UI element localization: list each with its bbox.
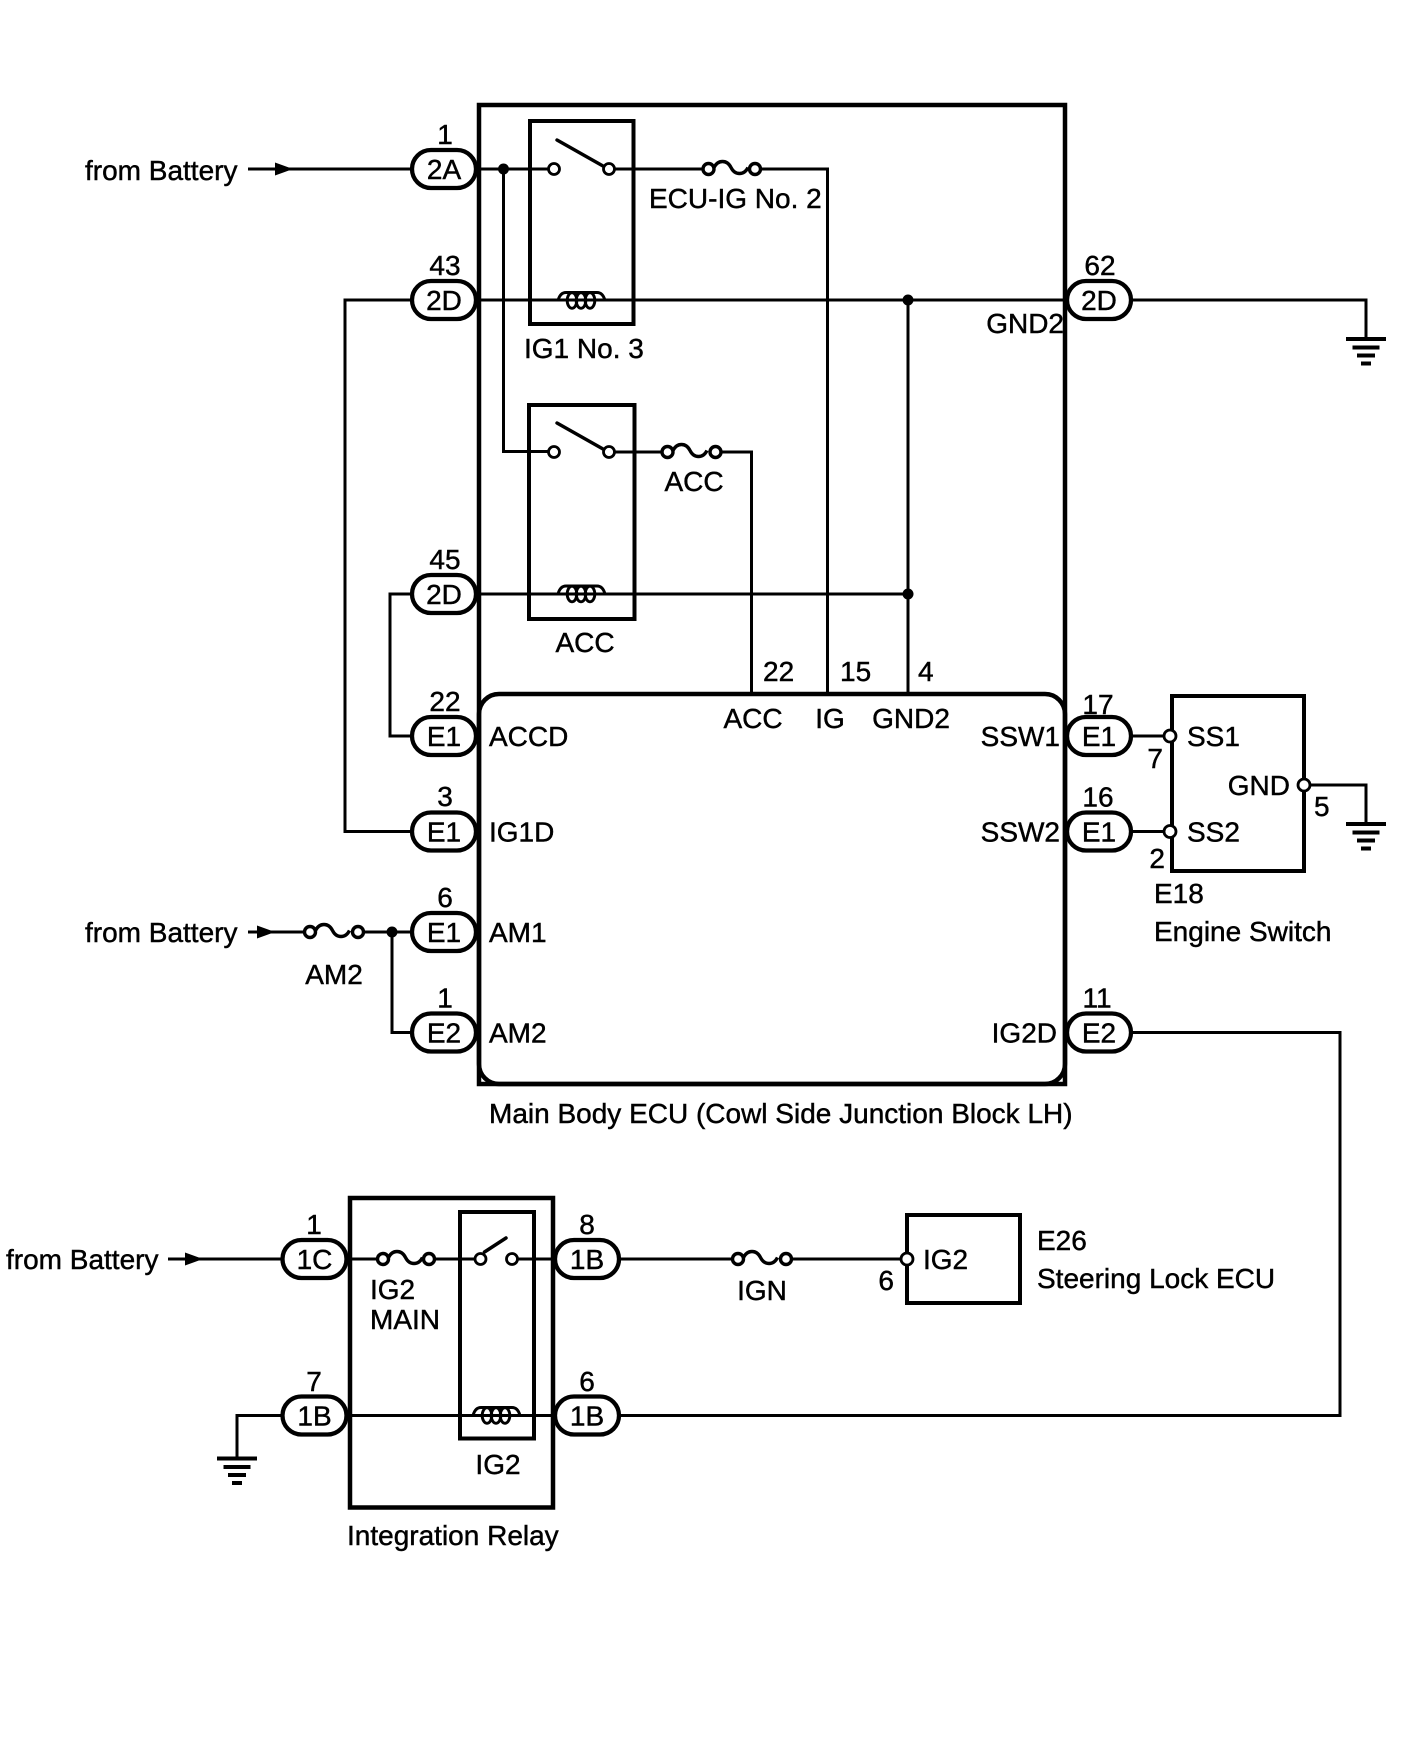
connector E1 pin 16 bbox=[1067, 813, 1131, 851]
junction dot GND2 wire top bbox=[903, 295, 914, 306]
connector E1 pin 3 bbox=[412, 813, 476, 851]
svg-text:from Battery: from Battery bbox=[6, 1244, 158, 1275]
svg-text:22: 22 bbox=[763, 656, 794, 687]
svg-text:15: 15 bbox=[840, 656, 871, 687]
wire 2D45 left down to ACCD bbox=[390, 594, 412, 736]
svg-text:IG1D: IG1D bbox=[489, 817, 554, 848]
svg-text:IG2D: IG2D bbox=[992, 1018, 1057, 1049]
wire GND to ground bbox=[1310, 785, 1366, 822]
svg-text:Integration Relay: Integration Relay bbox=[347, 1520, 559, 1551]
pin GND circle bbox=[1298, 779, 1310, 791]
arrowhead from Battery (bottom) bbox=[185, 1253, 203, 1266]
connector 1C pin 1 bbox=[283, 1240, 347, 1278]
pin IG2 circle (E26) bbox=[901, 1253, 913, 1265]
connector E1 pin 6 bbox=[412, 913, 476, 951]
arrowhead from Battery (AM2) bbox=[257, 926, 275, 939]
connector 1B pin 6 bbox=[555, 1397, 619, 1435]
svg-text:GND2: GND2 bbox=[986, 308, 1064, 339]
wire ACC switch to fuse ACC bbox=[615, 451, 663, 454]
svg-text:E1: E1 bbox=[427, 721, 461, 752]
wire SSW2 to SS2 bbox=[1131, 830, 1164, 833]
svg-text:1B: 1B bbox=[570, 1401, 604, 1432]
connector 2A bbox=[412, 150, 476, 188]
wire 2D43 through IG1 coil to GND2 node bbox=[476, 299, 1068, 302]
svg-text:2D: 2D bbox=[1081, 285, 1117, 316]
svg-text:1C: 1C bbox=[297, 1244, 333, 1275]
connector 1B pin 8 bbox=[555, 1240, 619, 1278]
svg-text:ACCD: ACCD bbox=[489, 721, 568, 752]
wire 2A to IG1 relay switch bbox=[476, 168, 548, 171]
svg-text:AM2: AM2 bbox=[489, 1018, 547, 1049]
svg-text:ACC: ACC bbox=[723, 703, 782, 734]
wire fuse ACC to pin 22 bbox=[721, 452, 752, 694]
Main Body ECU outer box bbox=[479, 105, 1065, 1084]
svg-text:E26: E26 bbox=[1037, 1225, 1087, 1256]
svg-text:E1: E1 bbox=[427, 917, 461, 948]
connector E2 pin 1 bbox=[412, 1014, 476, 1052]
svg-text:11: 11 bbox=[1082, 983, 1111, 1014]
svg-text:2D: 2D bbox=[426, 579, 462, 610]
svg-text:SSW1: SSW1 bbox=[981, 721, 1060, 752]
svg-text:ECU-IG No. 2: ECU-IG No. 2 bbox=[649, 183, 822, 214]
wire SSW1 to SS1 bbox=[1131, 735, 1164, 738]
wire from Battery to 1C bbox=[168, 1258, 282, 1261]
svg-text:E2: E2 bbox=[427, 1018, 461, 1049]
steering lock ECU E26 box bbox=[907, 1215, 1020, 1303]
junction dot on 2A feed bbox=[498, 164, 509, 175]
connector E2 pin 11 bbox=[1067, 1014, 1131, 1052]
relay IG2 coil bbox=[473, 1408, 520, 1424]
connector 2D pin 45 bbox=[412, 575, 476, 613]
relay IG1 No. 3 box bbox=[530, 121, 634, 324]
svg-text:Engine Switch: Engine Switch bbox=[1154, 916, 1331, 947]
relay IG1 No. 3 switch blade bbox=[557, 140, 603, 166]
relay IG1 No. 3 switch contact right bbox=[604, 164, 615, 175]
svg-text:8: 8 bbox=[579, 1209, 595, 1240]
ground symbol (engine switch) bbox=[1346, 824, 1386, 849]
svg-text:2: 2 bbox=[1149, 843, 1165, 874]
wire IG2 switch to 1B pin 8 bbox=[518, 1258, 556, 1261]
svg-text:Main Body ECU (Cowl Side Junct: Main Body ECU (Cowl Side Junction Block … bbox=[489, 1098, 1073, 1129]
wire IG1 switch to fuse ECU-IG No. 2 bbox=[615, 168, 704, 171]
svg-text:ACC: ACC bbox=[555, 627, 614, 658]
svg-text:1B: 1B bbox=[570, 1244, 604, 1275]
connector 2D pin 62 bbox=[1067, 281, 1131, 319]
wire fuse ECU-IG to IG pin 15 bbox=[761, 169, 828, 694]
fuse ACC bbox=[662, 445, 721, 458]
fuse ECU-IG No. 2 bbox=[703, 162, 761, 175]
ground symbol (GND2 top right) bbox=[1346, 339, 1386, 364]
fuse IGN bbox=[733, 1252, 792, 1265]
wire 1B pin 7 to IG2 coil bbox=[347, 1414, 556, 1417]
svg-text:IG1 No. 3: IG1 No. 3 bbox=[524, 333, 644, 364]
svg-text:E18: E18 bbox=[1154, 878, 1204, 909]
wire 1B pin 8 to fuse IGN bbox=[619, 1258, 733, 1261]
svg-text:GND2: GND2 bbox=[872, 703, 950, 734]
svg-text:IG: IG bbox=[815, 703, 845, 734]
relay ACC box bbox=[529, 405, 635, 619]
svg-text:4: 4 bbox=[918, 656, 934, 687]
fuse AM2 bbox=[305, 925, 364, 938]
svg-text:5: 5 bbox=[1314, 791, 1330, 822]
relay IG1 No. 3 switch contact left bbox=[549, 164, 560, 175]
wire 1C to fuse IG2 MAIN bbox=[347, 1258, 379, 1261]
wire fuse IG2 MAIN to IG2 relay switch bbox=[435, 1258, 476, 1261]
wire 2D43 left down to IG1D bbox=[345, 300, 412, 832]
svg-text:E1: E1 bbox=[1082, 721, 1116, 752]
svg-text:IG2: IG2 bbox=[923, 1244, 968, 1275]
svg-text:1: 1 bbox=[437, 983, 453, 1014]
svg-text:MAIN: MAIN bbox=[370, 1304, 440, 1335]
wire 1B pin 7 to ground bbox=[237, 1416, 283, 1458]
wire junction down to AM2 pin bbox=[392, 932, 412, 1033]
svg-text:3: 3 bbox=[437, 781, 453, 812]
svg-text:7: 7 bbox=[306, 1366, 322, 1397]
svg-text:IG2: IG2 bbox=[475, 1449, 520, 1480]
wire GND2 vertical to pin 4 bbox=[907, 300, 910, 694]
svg-text:from Battery: from Battery bbox=[85, 917, 237, 948]
svg-text:16: 16 bbox=[1082, 782, 1113, 813]
wire 2D45 through ACC coil to GND2 wire bbox=[476, 593, 908, 596]
relay IG1 No. 3 coil bbox=[558, 293, 605, 309]
svg-text:ACC: ACC bbox=[664, 466, 723, 497]
wire 2D62 to ground bbox=[1131, 300, 1366, 338]
svg-text:IGN: IGN bbox=[737, 1275, 787, 1306]
pin SS2 circle bbox=[1164, 826, 1176, 838]
relay IG2 switch contact left bbox=[475, 1254, 486, 1265]
wire IG2D to 1B pin 6 bbox=[620, 1033, 1340, 1416]
svg-text:6: 6 bbox=[437, 882, 453, 913]
connector 1B pin 7 bbox=[283, 1397, 347, 1435]
svg-text:1: 1 bbox=[306, 1209, 322, 1240]
svg-text:E1: E1 bbox=[427, 817, 461, 848]
relay IG2 switch blade bbox=[485, 1238, 507, 1252]
svg-text:SS2: SS2 bbox=[1187, 817, 1240, 848]
svg-text:1: 1 bbox=[437, 119, 453, 150]
relay ACC coil bbox=[558, 586, 605, 602]
connector 2D pin 43 bbox=[412, 281, 476, 319]
wire from Battery to fuse AM2 bbox=[248, 931, 304, 934]
svg-text:Steering Lock ECU: Steering Lock ECU bbox=[1037, 1263, 1275, 1294]
svg-text:2A: 2A bbox=[427, 154, 462, 185]
svg-text:E2: E2 bbox=[1082, 1018, 1116, 1049]
svg-text:6: 6 bbox=[579, 1366, 595, 1397]
integration relay outer box bbox=[350, 1198, 553, 1508]
svg-text:6: 6 bbox=[878, 1265, 894, 1296]
svg-text:1B: 1B bbox=[297, 1401, 331, 1432]
svg-text:SS1: SS1 bbox=[1187, 721, 1240, 752]
svg-text:GND: GND bbox=[1228, 770, 1290, 801]
svg-text:from Battery: from Battery bbox=[85, 155, 237, 186]
svg-text:2D: 2D bbox=[426, 285, 462, 316]
svg-text:45: 45 bbox=[429, 544, 460, 575]
pin SS1 circle bbox=[1164, 730, 1176, 742]
svg-text:AM1: AM1 bbox=[489, 917, 547, 948]
svg-text:7: 7 bbox=[1147, 743, 1163, 774]
svg-text:AM2: AM2 bbox=[305, 959, 363, 990]
relay ACC switch contact right bbox=[604, 447, 615, 458]
svg-text:22: 22 bbox=[429, 686, 460, 717]
wire fuse IGN to steering lock ECU bbox=[792, 1258, 902, 1261]
fuse IG2 MAIN bbox=[378, 1252, 435, 1265]
wire from Battery to connector 2A bbox=[248, 168, 412, 171]
engine switch E18 box bbox=[1172, 696, 1304, 871]
relay ACC switch blade bbox=[557, 423, 603, 449]
relay IG2 inner box bbox=[460, 1212, 534, 1439]
junction dot ACC coil to GND2 wire bbox=[903, 589, 914, 600]
wire junction down to ACC relay switch bbox=[504, 169, 549, 452]
svg-text:E1: E1 bbox=[1082, 817, 1116, 848]
Main Body ECU connector block (rounded) bbox=[479, 694, 1065, 1084]
svg-text:SSW2: SSW2 bbox=[981, 817, 1060, 848]
svg-text:62: 62 bbox=[1084, 250, 1115, 281]
junction dot AM2 branch bbox=[387, 927, 398, 938]
relay ACC switch contact left bbox=[549, 447, 560, 458]
connector E1 pin 22 bbox=[412, 717, 476, 755]
relay IG2 switch contact right bbox=[507, 1254, 518, 1265]
wire fuse AM2 to AM1 bbox=[364, 931, 413, 934]
svg-text:IG2: IG2 bbox=[370, 1274, 415, 1305]
arrowhead from Battery (top) bbox=[275, 163, 293, 176]
connector E1 pin 17 bbox=[1067, 717, 1131, 755]
ground symbol (integration relay) bbox=[217, 1459, 257, 1484]
svg-text:43: 43 bbox=[429, 250, 460, 281]
